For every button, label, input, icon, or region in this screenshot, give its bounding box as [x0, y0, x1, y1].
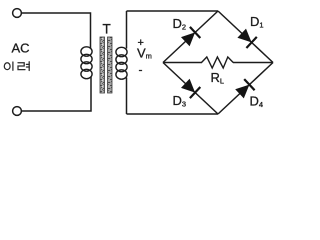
inductor secondary winding	[116, 47, 127, 79]
terminal bottom-left	[13, 107, 22, 116]
svg-text:AC: AC	[12, 41, 30, 56]
diode D4	[235, 79, 254, 98]
resistor RL leads	[163, 62, 202, 64]
wire primary bottom	[22, 77, 92, 111]
transformer core bar right	[108, 37, 113, 93]
bridge branch top-right	[218, 11, 273, 63]
wire secondary to bridge bottom	[127, 113, 219, 115]
wire secondary to bridge top	[127, 10, 219, 12]
diode D1	[237, 29, 256, 48]
diode D3	[181, 79, 200, 98]
svg-text:-: -	[139, 63, 143, 77]
label 입력 (drawn as vector strokes)	[4, 62, 29, 71]
wire secondary vertical	[126, 11, 128, 49]
diode D2	[181, 27, 200, 46]
svg-text:T: T	[103, 22, 111, 37]
inductor primary winding	[81, 47, 92, 79]
terminal top-left	[13, 9, 22, 18]
wire primary top	[22, 13, 91, 48]
resistor RL zigzag	[202, 57, 234, 68]
bridge branch left-top	[163, 11, 218, 63]
transformer core bar left	[100, 37, 105, 93]
bridge branch left-bottom	[163, 63, 218, 115]
bridge branch bottom-right	[218, 63, 273, 115]
